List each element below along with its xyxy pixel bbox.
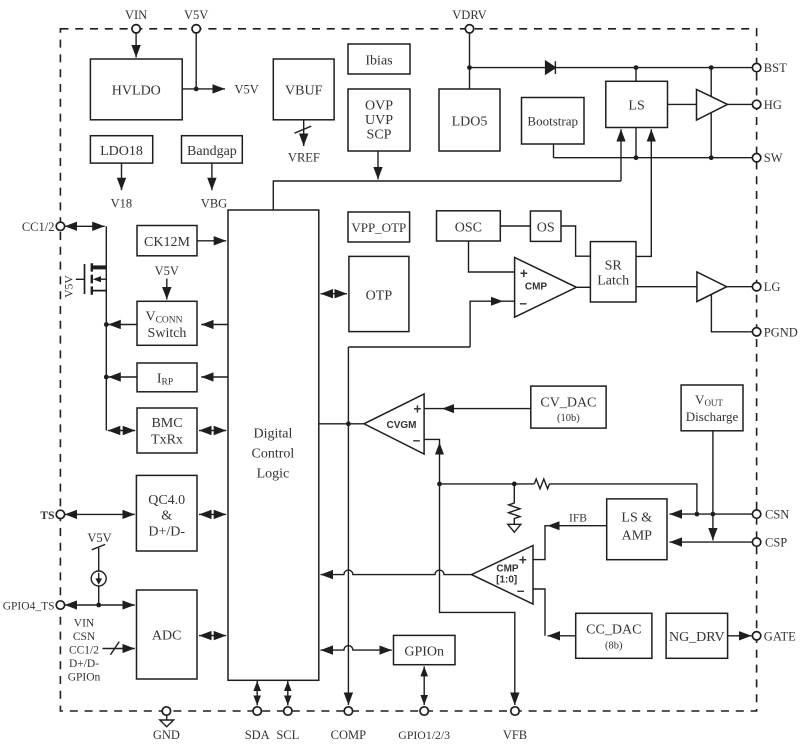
wire VBUF to VREF	[303, 120, 305, 146]
box QC4.0 D+/D-	[136, 475, 197, 551]
svg-text:VBUF: VBUF	[285, 84, 323, 99]
net label V5V rotated at Q1 gate	[64, 275, 76, 298]
node junction VDRV-BST	[467, 65, 472, 70]
svg-text:BMC: BMC	[151, 416, 182, 431]
wire CMP[1:0] minus down	[533, 589, 545, 636]
svg-text:Bootstrap: Bootstrap	[527, 113, 578, 128]
wire HVLDO output V5V	[182, 88, 225, 90]
wire V5V to Vconn switch	[166, 279, 168, 300]
wire BST junction down to LS top	[635, 68, 637, 82]
svg-text:SDA: SDA	[245, 728, 270, 742]
svg-text:SCP: SCP	[367, 128, 392, 143]
svg-text:Digital: Digital	[253, 427, 292, 442]
svg-text:TS: TS	[40, 510, 54, 522]
svg-text:QC4.0: QC4.0	[148, 493, 185, 508]
wire CMP output to SR latch	[576, 286, 590, 288]
svg-text:LDO18: LDO18	[100, 144, 143, 159]
box Digital Control Logic	[228, 210, 319, 680]
pin SCL	[276, 707, 299, 742]
svg-text:D+/D-: D+/D-	[69, 658, 99, 670]
svg-text:VIN: VIN	[125, 8, 147, 22]
transistor Q1 channel segments	[91, 263, 93, 295]
wire COMP vertical to COMP pin	[347, 347, 349, 705]
wire ADC multiplexed input	[103, 648, 135, 650]
svg-text:VDRV: VDRV	[452, 8, 486, 22]
wire feedback resistor rail left part	[440, 483, 535, 485]
svg-text:VPP_OTP: VPP_OTP	[351, 220, 406, 235]
box CC_DAC	[576, 613, 652, 658]
net label IFB	[569, 512, 587, 524]
svg-text:NG_DRV: NG_DRV	[669, 630, 725, 645]
svg-text:ADC: ADC	[152, 628, 182, 643]
wire OSC to OS	[500, 225, 530, 227]
svg-text:CV_DAC: CV_DAC	[540, 395, 596, 410]
wire IRP to CC rail	[108, 376, 197, 378]
node junction BST-HGdriver	[709, 65, 714, 70]
svg-text:CC1/2: CC1/2	[22, 220, 55, 234]
box LS & AMP	[607, 499, 667, 560]
pin GPIO4_TS	[3, 601, 65, 613]
wire digital control logic top to LS row	[273, 181, 621, 210]
svg-text:CSN: CSN	[765, 508, 789, 522]
svg-text:VREF: VREF	[288, 151, 320, 165]
box LS	[606, 81, 668, 127]
resistor R2 pulldown	[509, 484, 520, 524]
wire COMP node to CMP minus input	[470, 301, 514, 347]
wire LG driver to PGND pin	[711, 294, 752, 332]
op-amp CVGM error amplifier	[364, 394, 424, 454]
transistor Q1 source contact	[92, 290, 107, 292]
svg-text:+: +	[519, 552, 527, 567]
current source I1 bottom lead	[98, 586, 100, 605]
wire CV_DAC to CVGM plus input	[424, 408, 531, 410]
transistor Q1 gate bar	[84, 264, 86, 294]
box BMC TxRx	[137, 408, 197, 453]
svg-text:+: +	[414, 402, 422, 417]
box Bootstrap	[522, 98, 585, 145]
box Vout Discharge	[681, 385, 743, 431]
svg-text:CK12M: CK12M	[144, 235, 190, 250]
box OVP UVP SCP	[348, 89, 410, 151]
svg-text:Switch: Switch	[148, 326, 187, 341]
wire CVGM output to digital control logic	[319, 423, 364, 425]
box LDO18	[90, 136, 152, 163]
wire CSN pin to LS&AMP	[670, 513, 753, 515]
node junction CCrail-IRP	[104, 375, 109, 380]
box NG_DRV	[666, 613, 728, 658]
pin TS	[40, 510, 64, 522]
svg-text:Discharge: Discharge	[686, 409, 739, 424]
svg-text:Logic: Logic	[257, 467, 290, 482]
svg-text:PGND: PGND	[764, 325, 798, 339]
svg-text:HG: HG	[764, 98, 782, 112]
svg-text:V5V: V5V	[235, 83, 259, 97]
wire HG driver output to HG pin	[728, 103, 753, 105]
box SR Latch	[590, 242, 636, 302]
wire GPIOn to GPIO1/2/3 pin	[423, 666, 425, 705]
box CK12M	[137, 226, 197, 256]
wire GPIO4_TS pin to ADC	[65, 604, 135, 606]
wire LS bottom to SW rail	[635, 128, 637, 158]
svg-text:LG: LG	[764, 280, 781, 294]
wire VFB node down to VFB pin	[440, 484, 515, 705]
wire SR latch to LS (right arrow)	[636, 129, 651, 256]
box ADC	[137, 590, 198, 679]
wire CMP[1:0] output to digital control logic with crossover humps	[321, 570, 472, 575]
pin SDA	[245, 707, 270, 742]
wire OS to SR latch	[561, 226, 590, 256]
arrowhead on CV_DAC wire	[442, 404, 454, 413]
svg-text:OVP: OVP	[365, 99, 393, 114]
svg-text:GATE: GATE	[764, 629, 796, 643]
buffer LG driver	[697, 272, 727, 302]
transistor Q1 gate lead	[76, 278, 85, 280]
wire IFB from LS&AMP to CMP[1:0] plus	[533, 526, 607, 560]
pin GATE	[752, 629, 796, 643]
transistor Q1 drain contact	[92, 265, 107, 269]
svg-text:(10b): (10b)	[557, 413, 580, 424]
bus slash on ADC input	[111, 642, 120, 655]
svg-text:Latch: Latch	[597, 273, 629, 288]
pin VIN	[125, 8, 147, 33]
node junction SW-HGdriver	[709, 155, 714, 160]
op-amp CMP[1:0] current comparator	[472, 546, 534, 605]
diode D1 bootstrap	[546, 61, 556, 74]
wire VDRV down to LDO5	[469, 33, 471, 89]
svg-text:SR: SR	[605, 258, 623, 273]
svg-text:–: –	[517, 583, 525, 598]
svg-text:Bandgap: Bandgap	[187, 144, 237, 159]
wire GND pin lead	[166, 715, 168, 720]
svg-text:VBG: VBG	[201, 197, 227, 211]
node junction CSN-Vout discharge	[711, 512, 716, 517]
svg-text:CSN: CSN	[73, 631, 96, 643]
svg-text:D+/D-: D+/D-	[148, 524, 185, 539]
current source I1 arrow	[98, 573, 100, 579]
transistor Q1 body arrow	[93, 276, 101, 282]
svg-text:VFB: VFB	[503, 728, 527, 742]
svg-text:&: &	[161, 509, 172, 524]
svg-text:LS: LS	[628, 99, 644, 114]
svg-text:CMP: CMP	[525, 282, 548, 293]
svg-text:BST: BST	[764, 61, 787, 75]
node junction SW-LS	[634, 155, 639, 160]
svg-text:UVP: UVP	[365, 113, 393, 128]
box OS	[530, 211, 561, 241]
svg-text:Control: Control	[252, 447, 295, 462]
svg-text:COMP: COMP	[331, 728, 366, 742]
pin V5V	[184, 8, 208, 33]
wire BST down through HG driver to SW	[710, 68, 712, 158]
ground symbol under R2	[508, 524, 521, 532]
svg-text:CC1/2: CC1/2	[69, 645, 99, 657]
wire OSC to CMP plus input	[469, 241, 515, 272]
node junction V5V	[194, 87, 199, 92]
arrowhead on CMP minus wire	[491, 297, 503, 306]
pin CSN	[752, 508, 789, 522]
pin GND	[153, 707, 180, 742]
net label VREF	[288, 151, 320, 165]
box HVLDO	[90, 59, 182, 120]
svg-text:–: –	[413, 432, 421, 447]
svg-text:CVGM: CVGM	[387, 420, 417, 431]
wire CC1/2 pin to CC rail	[65, 225, 105, 227]
box IRP	[137, 363, 197, 392]
svg-text:V5V: V5V	[87, 531, 111, 545]
wire DCL to Vconn switch	[201, 324, 228, 326]
box Vconn Switch	[137, 301, 197, 345]
box VBUF	[273, 59, 334, 120]
node junction CSN-resistor	[695, 512, 700, 517]
svg-text:VIN: VIN	[74, 618, 95, 630]
svg-text:V5V: V5V	[64, 275, 76, 298]
current source I1 top lead	[98, 548, 100, 571]
node junction CVGM output on COMP line	[346, 421, 351, 426]
ground symbol GND	[160, 720, 174, 727]
wire DCL to SCL pin	[287, 681, 289, 705]
node junction current source on GPIO4_TS wire	[96, 603, 101, 608]
pin PGND	[752, 325, 797, 339]
net label V5V output	[235, 83, 259, 97]
wire CSP pin to LS&AMP	[670, 541, 753, 543]
svg-text:V18: V18	[111, 197, 133, 211]
svg-text:TxRx: TxRx	[151, 432, 183, 447]
svg-text:–: –	[520, 295, 528, 310]
svg-text:GPIOn: GPIOn	[404, 644, 444, 659]
wire NG_DRV to GATE pin	[728, 635, 752, 637]
pin BST	[752, 61, 787, 75]
wire CK12M to DCL	[197, 240, 226, 242]
svg-text:GND: GND	[153, 728, 180, 742]
svg-text:IFB: IFB	[569, 512, 587, 524]
arrowhead up on CVGM minus wire	[435, 443, 444, 455]
svg-text:OSC: OSC	[455, 220, 482, 235]
svg-text:(8b): (8b)	[605, 640, 623, 651]
wire CC_DAC to CMP[1:0] minus	[548, 635, 576, 637]
pin VDRV	[452, 8, 486, 33]
svg-text:GPIOn: GPIOn	[68, 672, 101, 684]
wire OVP/UVP/SCP down arrow	[377, 151, 379, 179]
wire DCL to GPIOn with crossover hump	[321, 646, 392, 651]
svg-text:V5V: V5V	[155, 264, 179, 278]
wire Vout discharge down to CSP	[712, 431, 714, 541]
net label V5V above current source	[87, 531, 111, 545]
wire ADC to DCL	[199, 635, 226, 637]
chip boundary dashed border	[60, 29, 756, 711]
wire TS pin to QC4.0	[65, 513, 135, 515]
box VPP_OTP	[348, 212, 410, 242]
wire CC rail vertical	[105, 226, 107, 430]
wire VIN to HVLDO	[135, 33, 137, 57]
box Bandgap	[182, 136, 243, 163]
pin CC1/2	[22, 220, 65, 234]
svg-text:V5V: V5V	[184, 8, 208, 22]
svg-text:SW: SW	[764, 151, 783, 165]
net label VBG	[201, 197, 227, 211]
net label ADC input list	[68, 618, 101, 684]
wire COMP horizontal segment	[348, 346, 470, 348]
wire CVGM minus input to VFB node	[424, 439, 439, 484]
box LDO5	[439, 89, 500, 151]
current source I1 circle	[91, 571, 106, 586]
svg-text:SCL: SCL	[276, 728, 299, 742]
net label V18	[111, 197, 133, 211]
svg-text:LS &: LS &	[621, 510, 652, 525]
box OTP	[349, 256, 409, 331]
wire BST rail left of diode	[470, 67, 546, 69]
node junction VFB-resistor	[437, 482, 442, 487]
bus slash on VREF wire	[295, 126, 312, 133]
wire SW rail	[554, 157, 753, 159]
svg-text:CMP: CMP	[496, 563, 519, 574]
wire LDO18 to V18	[121, 163, 123, 190]
wire CC rail to BMC TxRx	[108, 430, 135, 432]
pin SW	[752, 151, 782, 165]
wire Bandgap to VBG	[211, 163, 213, 190]
svg-text:[1:0]: [1:0]	[496, 574, 517, 585]
node junction pulldown resistor	[512, 482, 517, 487]
svg-text:HVLDO: HVLDO	[112, 84, 161, 99]
svg-text:+: +	[520, 266, 528, 281]
node junction CCrail-Vconn	[104, 322, 109, 327]
wire Vconn switch to CC rail	[108, 324, 197, 326]
svg-text:OS: OS	[537, 221, 555, 236]
svg-text:LDO5: LDO5	[452, 115, 488, 130]
svg-text:CC_DAC: CC_DAC	[586, 622, 641, 637]
wire DCL to IRP	[201, 376, 228, 378]
current source I1 supply tick	[92, 544, 105, 549]
wire resistor rail to CSN	[550, 484, 697, 514]
svg-text:AMP: AMP	[622, 528, 653, 543]
pin VFB	[503, 707, 527, 742]
svg-text:GPIO1/2/3: GPIO1/2/3	[398, 728, 450, 742]
wire digital control to LS (left arrow)	[620, 129, 622, 181]
wire SR latch output to LG driver	[636, 286, 697, 288]
node junction BST-LS	[634, 65, 639, 70]
wire LG driver output to LG pin	[727, 286, 753, 288]
box CV_DAC	[531, 386, 606, 428]
box Ibias	[348, 44, 410, 74]
net label V5V above Vconn	[155, 264, 179, 278]
svg-text:OTP: OTP	[366, 288, 393, 303]
box OSC	[437, 211, 501, 241]
pin HG	[752, 98, 781, 112]
arrowhead on IFB wire	[548, 521, 560, 530]
svg-text:Ibias: Ibias	[365, 54, 392, 69]
op-amp CMP pwm comparator	[515, 258, 577, 318]
wire BST rail right of diode to BST pin	[555, 67, 752, 69]
pin CSP	[752, 536, 787, 550]
wire LS output to HG driver	[668, 103, 697, 105]
wire BMC TxRx to DCL	[199, 430, 226, 432]
pin LG	[752, 280, 780, 294]
wire DCL to SDA pin	[256, 681, 258, 705]
svg-text:GPIO4_TS: GPIO4_TS	[3, 601, 55, 613]
buffer HG driver	[697, 89, 728, 120]
wire QC4.0 to DCL	[199, 513, 226, 515]
wire Bootstrap bottom to SW rail	[553, 144, 555, 158]
resistor R1 horizontal	[534, 479, 549, 489]
wire DCL to OTP	[321, 293, 348, 295]
pin GPIO1/2/3	[398, 707, 450, 742]
box GPIOn	[394, 635, 456, 664]
svg-text:CSP: CSP	[765, 536, 787, 550]
pin COMP	[331, 707, 366, 742]
wire V5V pin down to HVLDO output line	[195, 33, 197, 89]
